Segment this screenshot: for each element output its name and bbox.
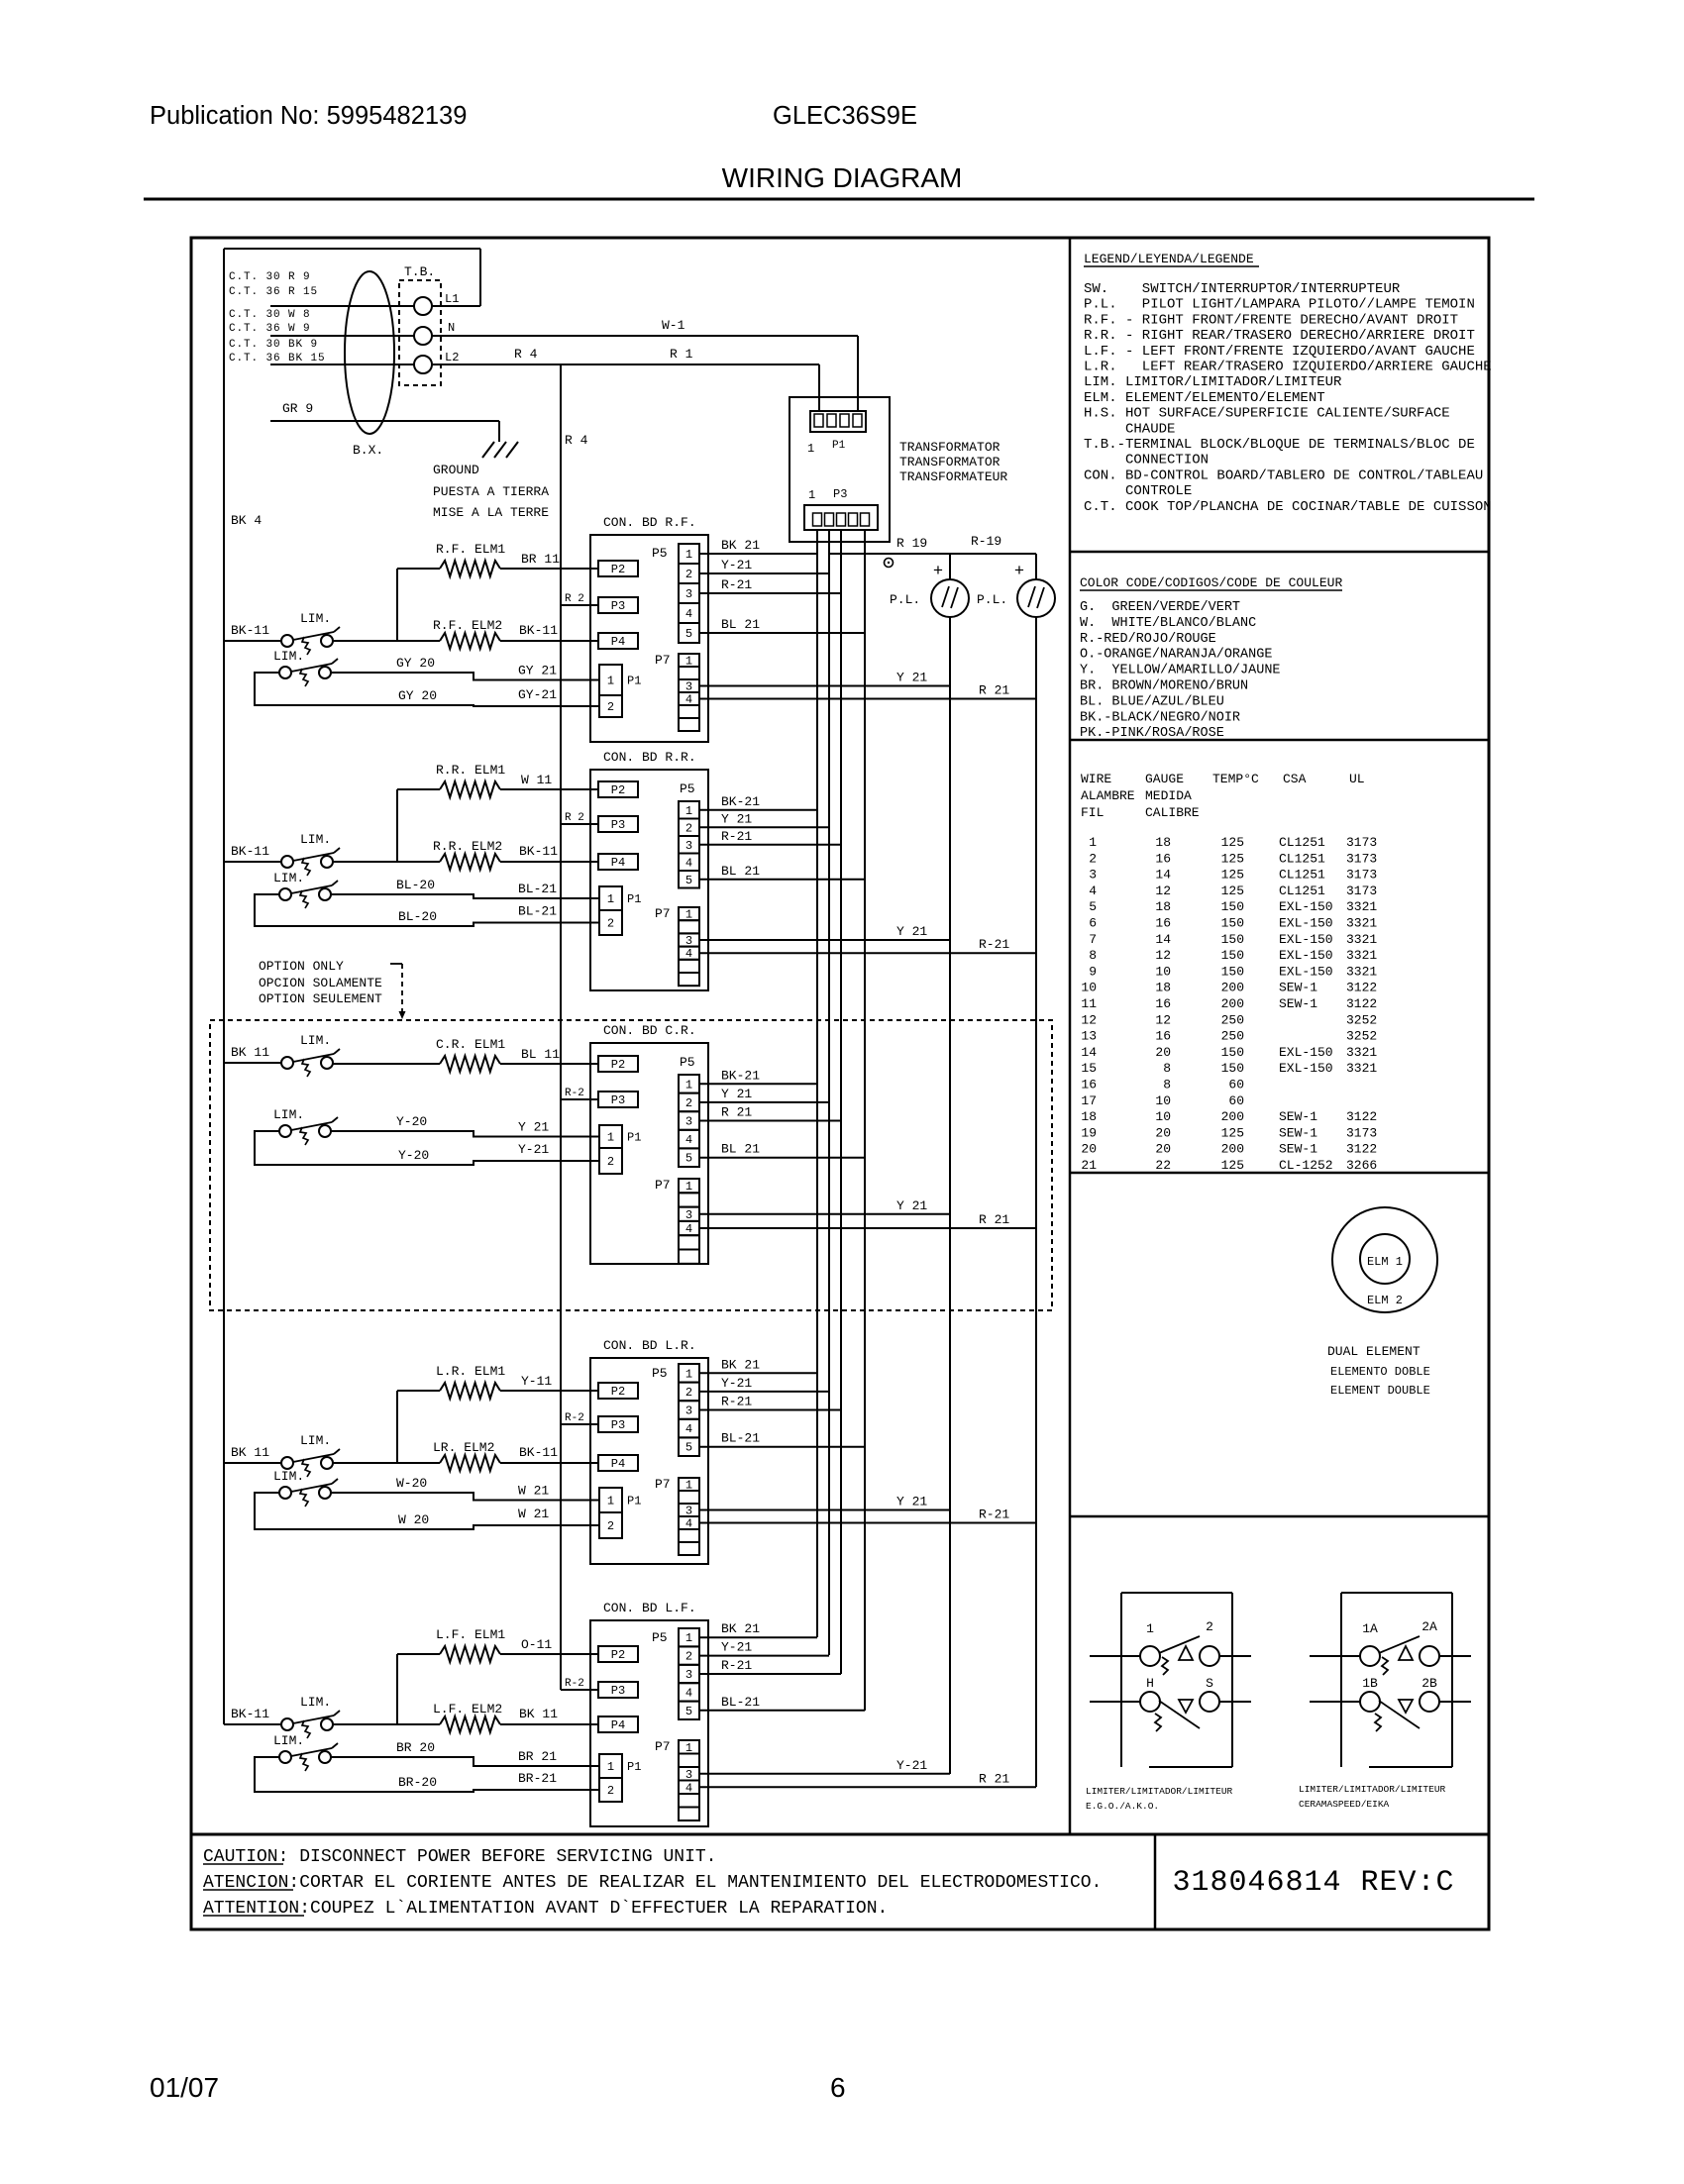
svg-text:Publication No: 5995482139: Publication No: 5995482139 [150,102,467,130]
svg-text:2: 2 [607,1155,614,1169]
svg-text:LIM.: LIM. [273,1107,304,1122]
svg-text:Y-21: Y-21 [721,1376,752,1391]
svg-text:P3: P3 [611,1418,625,1432]
svg-text:BL-21: BL-21 [518,882,557,896]
svg-text:GY-21: GY-21 [518,687,557,702]
svg-text:R-21: R-21 [721,829,752,844]
svg-text:W-1: W-1 [662,318,685,333]
svg-text:CON. BD L.R.: CON. BD L.R. [603,1338,696,1353]
svg-text:C.T. 36 R 15: C.T. 36 R 15 [229,286,318,298]
svg-text:BK-21: BK-21 [721,1068,760,1083]
svg-text:P2: P2 [611,783,625,797]
svg-text:150: 150 [1221,932,1244,947]
svg-text:150: 150 [1221,1045,1244,1060]
svg-text:R-21: R-21 [721,1658,752,1673]
svg-text:EXL-150: EXL-150 [1279,964,1333,979]
svg-text:W 11: W 11 [521,773,552,787]
svg-text:3321: 3321 [1346,948,1377,963]
svg-text:SW. SWITCH/INTERRUPTOR/INTE: SW. SWITCH/INTERRUPTOR/INTERRUPTEUR [1084,281,1401,297]
svg-text:SEW-1: SEW-1 [1279,1125,1317,1140]
svg-text:L.F. ELM1: L.F. ELM1 [436,1627,505,1642]
svg-text:ELEMENT DOUBLE: ELEMENT DOUBLE [1330,1384,1430,1398]
svg-text:2: 2 [607,1784,614,1798]
svg-text:15: 15 [1081,1061,1097,1076]
svg-text:W 21: W 21 [518,1484,549,1499]
svg-text:CL1251: CL1251 [1279,884,1325,898]
svg-text:R 4: R 4 [565,433,588,448]
svg-text:125: 125 [1221,1158,1244,1173]
svg-text:P3: P3 [611,599,625,613]
svg-text:12: 12 [1155,884,1171,898]
svg-text:16: 16 [1155,1029,1171,1044]
svg-text:GLEC36S9E: GLEC36S9E [773,102,917,130]
svg-text:1: 1 [685,1479,692,1493]
svg-text:1: 1 [685,1078,692,1092]
svg-text:O-11: O-11 [521,1637,552,1652]
svg-text:R 2: R 2 [565,812,584,824]
svg-text:R-19: R-19 [971,534,1001,549]
svg-text:1A: 1A [1362,1621,1378,1636]
svg-text:18: 18 [1155,981,1171,995]
svg-text:R-21: R-21 [721,577,752,592]
svg-text:P7: P7 [655,906,671,921]
svg-text:CERAMASPEED/EIKA: CERAMASPEED/EIKA [1299,1799,1390,1810]
svg-text:GY 20: GY 20 [398,688,437,703]
svg-text:ATENCION:CORTAR EL CORIENTE AN: ATENCION:CORTAR EL CORIENTE ANTES DE REA… [203,1873,1102,1893]
svg-text:P3: P3 [611,818,625,832]
svg-text:P1: P1 [832,440,846,452]
svg-text:BK.-BLACK/NEGRO/NOIR: BK.-BLACK/NEGRO/NOIR [1080,710,1240,725]
svg-text:3: 3 [685,1668,692,1682]
svg-text:150: 150 [1221,899,1244,914]
svg-text:W 20: W 20 [398,1512,429,1527]
svg-text:R-2: R-2 [565,1088,584,1099]
svg-text:Y. YELLOW/AMARILLO/JAUNE: Y. YELLOW/AMARILLO/JAUNE [1080,664,1281,678]
svg-text:P2: P2 [611,1058,625,1072]
svg-text:P2: P2 [611,1648,625,1662]
svg-text:R.R. - RIGHT REAR/TRASERO DERE: R.R. - RIGHT REAR/TRASERO DERECHO/ARRIER… [1084,328,1475,344]
svg-text:BK-11: BK-11 [519,1445,558,1460]
svg-text:C.T. 30 R 9: C.T. 30 R 9 [229,271,311,283]
svg-text:2: 2 [607,917,614,931]
svg-text:CON. BD R.R.: CON. BD R.R. [603,750,696,765]
svg-text:1: 1 [685,804,692,818]
svg-text:Y 21: Y 21 [721,811,752,826]
svg-text:3122: 3122 [1346,1109,1377,1124]
svg-text:2: 2 [1089,851,1097,866]
svg-text:WIRING DIAGRAM: WIRING DIAGRAM [722,162,963,193]
svg-text:R 19: R 19 [896,536,927,551]
svg-text:8: 8 [1089,948,1097,963]
svg-text:5: 5 [685,1441,692,1455]
svg-text:Y-21: Y-21 [721,1640,752,1655]
svg-text:BL-21: BL-21 [721,1695,760,1710]
svg-text:LIM. LIMITOR/LIMITADOR/LIMITEU: LIM. LIMITOR/LIMITADOR/LIMITEUR [1084,374,1342,390]
svg-text:BL 21: BL 21 [721,1142,760,1157]
svg-text:4: 4 [685,1422,692,1436]
svg-text:2: 2 [607,700,614,714]
svg-text:CSA: CSA [1283,772,1307,786]
svg-text:BK 21: BK 21 [721,1621,760,1636]
svg-text:LIMITER/LIMITADOR/LIMITEUR: LIMITER/LIMITADOR/LIMITEUR [1299,1784,1446,1795]
svg-text:R 21: R 21 [721,1105,752,1120]
svg-text:CONNECTION: CONNECTION [1084,453,1209,468]
svg-text:GY 21: GY 21 [518,664,557,678]
svg-text:8: 8 [1163,1078,1171,1092]
svg-text:CON. BD L.F.: CON. BD L.F. [603,1601,696,1615]
svg-text:CON. BD R.F.: CON. BD R.F. [603,515,696,530]
svg-text:TRANSFORMATEUR: TRANSFORMATEUR [899,469,1007,484]
svg-text:2: 2 [607,1519,614,1533]
svg-text:3: 3 [685,587,692,601]
svg-text:4: 4 [685,693,692,707]
svg-text:OPCION SOLAMENTE: OPCION SOLAMENTE [259,976,382,990]
svg-text:200: 200 [1221,1142,1244,1157]
svg-text:MISE A LA TERRE: MISE A LA TERRE [433,505,549,520]
svg-text:125: 125 [1221,835,1244,850]
svg-text:6: 6 [1089,916,1097,931]
svg-text:1: 1 [1089,835,1097,850]
svg-text:Y 21: Y 21 [896,1198,927,1213]
svg-text:LIM.: LIM. [300,1695,331,1710]
svg-text:C.T. 36 BK 15: C.T. 36 BK 15 [229,353,326,364]
svg-text:Y-21: Y-21 [721,558,752,572]
svg-text:GR 9: GR 9 [282,401,313,416]
svg-text:C.R. ELM1: C.R. ELM1 [436,1037,505,1052]
svg-text:T.B.-TERMINAL BLOCK/BLOQUE DE: T.B.-TERMINAL BLOCK/BLOQUE DE TERMINALS/… [1084,437,1475,453]
svg-text:P4: P4 [611,1457,625,1471]
svg-text:3173: 3173 [1346,884,1377,898]
svg-text:L.R. ELM1: L.R. ELM1 [436,1364,505,1379]
svg-text:Y 21: Y 21 [896,671,927,685]
svg-text:P3: P3 [833,487,847,501]
svg-text:1: 1 [685,1367,692,1381]
svg-text:R.F. ELM2: R.F. ELM2 [433,618,502,633]
svg-text:N: N [448,321,455,335]
svg-text:17: 17 [1081,1093,1097,1108]
svg-text:3173: 3173 [1346,1125,1377,1140]
svg-text:R 21: R 21 [979,1771,1009,1786]
svg-text:R 2: R 2 [565,593,584,605]
svg-text:1: 1 [1146,1621,1154,1636]
svg-text:20: 20 [1081,1142,1097,1157]
svg-text:ALAMBRE: ALAMBRE [1081,788,1135,803]
svg-text:7: 7 [1089,932,1097,947]
svg-text:125: 125 [1221,851,1244,866]
svg-text:BL-20: BL-20 [396,878,435,892]
svg-text:R.R. ELM1: R.R. ELM1 [436,763,505,778]
svg-text:CON. BD C.R.: CON. BD C.R. [603,1023,696,1038]
svg-text:EXL-150: EXL-150 [1279,1061,1333,1076]
svg-text:3321: 3321 [1346,1061,1377,1076]
svg-text:16: 16 [1155,996,1171,1011]
svg-text:TRANSFORMATOR: TRANSFORMATOR [899,440,1000,455]
svg-text:BR-20: BR-20 [398,1775,437,1790]
svg-text:DUAL ELEMENT: DUAL ELEMENT [1327,1344,1421,1359]
svg-text:TEMP°C: TEMP°C [1212,772,1259,786]
svg-text:2: 2 [685,821,692,835]
svg-text:18: 18 [1155,835,1171,850]
svg-text:BL 21: BL 21 [721,864,760,879]
svg-text:SEW-1: SEW-1 [1279,1109,1317,1124]
svg-text:3321: 3321 [1346,899,1377,914]
svg-text:125: 125 [1221,868,1244,883]
svg-text:PUESTA A TIERRA: PUESTA A TIERRA [433,484,549,499]
svg-text:CL-1252: CL-1252 [1279,1158,1333,1173]
svg-text:L.F. ELM2: L.F. ELM2 [433,1702,502,1716]
svg-text:ATTENTION:COUPEZ L`ALIMENTATIO: ATTENTION:COUPEZ L`ALIMENTATION AVANT D`… [203,1899,888,1919]
svg-text:1: 1 [607,1495,614,1508]
svg-text:1: 1 [607,892,614,906]
svg-text:P1: P1 [627,892,641,906]
svg-text:21: 21 [1081,1158,1097,1173]
svg-text:R-2: R-2 [565,1412,584,1424]
svg-text:P5: P5 [652,1630,668,1645]
svg-text:SEW-1: SEW-1 [1279,1142,1317,1157]
svg-text:P5: P5 [652,546,668,561]
svg-text:14: 14 [1155,868,1171,883]
svg-text:BK 21: BK 21 [721,1357,760,1372]
svg-text:GROUND: GROUND [433,463,479,477]
svg-text:10: 10 [1155,1093,1171,1108]
svg-text:1: 1 [607,1131,614,1145]
svg-text:3: 3 [685,680,692,694]
svg-text:L.R. LEFT REAR/TRASERO IZQUI: L.R. LEFT REAR/TRASERO IZQUIERDO/ARRIERE… [1084,360,1492,375]
svg-text:1: 1 [685,1741,692,1755]
svg-text:P2: P2 [611,1385,625,1399]
svg-text:BL-21: BL-21 [518,904,557,919]
svg-text:5: 5 [685,874,692,887]
svg-text:P5: P5 [652,1366,668,1381]
svg-text:12: 12 [1155,1012,1171,1027]
svg-text:E.G.O./A.K.O.: E.G.O./A.K.O. [1086,1801,1159,1812]
svg-text:Y 21: Y 21 [518,1120,549,1135]
svg-text:3: 3 [685,1404,692,1418]
svg-text:CL1251: CL1251 [1279,868,1325,883]
svg-text:Y-21: Y-21 [518,1142,549,1157]
svg-text:12: 12 [1081,1012,1097,1027]
svg-text:S: S [1206,1676,1213,1691]
svg-text:16: 16 [1155,916,1171,931]
svg-text:BK-11: BK-11 [519,844,558,859]
svg-text:4: 4 [685,1222,692,1236]
svg-text:3122: 3122 [1346,1142,1377,1157]
svg-text:SEW-1: SEW-1 [1279,981,1317,995]
svg-text:ELM. ELEMENT/ELEMENTO/ELEMENT: ELM. ELEMENT/ELEMENTO/ELEMENT [1084,390,1325,406]
svg-text:LIMITER/LIMITADOR/LIMITEUR: LIMITER/LIMITADOR/LIMITEUR [1086,1786,1233,1797]
svg-text:13: 13 [1081,1029,1097,1044]
svg-text:2: 2 [685,1096,692,1110]
svg-text:CL1251: CL1251 [1279,851,1325,866]
svg-text:UL: UL [1349,772,1365,786]
svg-text:P.L.: P.L. [890,592,920,607]
svg-text:11: 11 [1081,996,1097,1011]
svg-text:R 21: R 21 [979,1212,1009,1227]
svg-text:BR 11: BR 11 [521,552,560,567]
svg-text:L2: L2 [445,351,459,364]
svg-text:OPTION SEULEMENT: OPTION SEULEMENT [259,991,382,1006]
svg-text:1: 1 [607,1760,614,1774]
svg-text:2B: 2B [1421,1676,1437,1691]
svg-text:EXL-150: EXL-150 [1279,899,1333,914]
svg-text:P3: P3 [611,1684,625,1698]
svg-text:R-21: R-21 [979,1508,1009,1522]
svg-text:Y-11: Y-11 [521,1374,552,1389]
svg-text:4: 4 [685,1686,692,1700]
svg-text:1: 1 [685,655,692,669]
svg-text:P1: P1 [627,675,641,688]
svg-text:P1: P1 [627,1760,641,1774]
svg-text:4: 4 [685,1517,692,1531]
svg-text:16: 16 [1081,1078,1097,1092]
svg-text:BL-20: BL-20 [398,909,437,924]
svg-text:PK.-PINK/ROSA/ROSE: PK.-PINK/ROSA/ROSE [1080,726,1224,741]
svg-text:R 4: R 4 [514,347,538,362]
svg-text:ELEMENTO DOBLE: ELEMENTO DOBLE [1330,1365,1430,1379]
svg-text:P5: P5 [680,781,695,796]
svg-text:GY 20: GY 20 [396,656,435,671]
svg-text:20: 20 [1155,1125,1171,1140]
svg-text:3: 3 [685,1768,692,1782]
svg-text:60: 60 [1228,1093,1244,1108]
svg-text:3252: 3252 [1346,1012,1377,1027]
svg-text:R.F. - RIGHT FRONT/FRENTE DERE: R.F. - RIGHT FRONT/FRENTE DERECHO/AVANT … [1084,312,1458,328]
svg-text:1: 1 [808,488,815,502]
svg-text:16: 16 [1155,851,1171,866]
svg-text:10: 10 [1155,1109,1171,1124]
svg-text:10: 10 [1081,981,1097,995]
svg-text:5: 5 [685,1152,692,1166]
svg-text:+: + [1014,563,1024,581]
svg-text:BK 21: BK 21 [721,538,760,553]
svg-text:1: 1 [685,548,692,562]
svg-text:5: 5 [685,1705,692,1718]
svg-text:3: 3 [685,1115,692,1129]
svg-text:OPTION ONLY: OPTION ONLY [259,959,344,974]
svg-text:BR 21: BR 21 [518,1749,557,1764]
svg-text:4: 4 [685,856,692,870]
svg-text:BL 21: BL 21 [721,617,760,632]
svg-text:18: 18 [1081,1109,1097,1124]
svg-text:150: 150 [1221,948,1244,963]
svg-text:1: 1 [685,1180,692,1194]
svg-text:9: 9 [1089,964,1097,979]
svg-text:C.T. 30 W 8: C.T. 30 W 8 [229,309,311,321]
svg-text:3321: 3321 [1346,916,1377,931]
svg-text:1: 1 [607,675,614,688]
svg-text:R.-RED/ROJO/ROUGE: R.-RED/ROJO/ROUGE [1080,632,1216,647]
svg-text:R-21: R-21 [721,1395,752,1409]
svg-text:1: 1 [685,1631,692,1645]
svg-text:LIM.: LIM. [300,832,331,847]
svg-text:LIM.: LIM. [273,1733,304,1748]
svg-text:250: 250 [1221,1029,1244,1044]
svg-text:6: 6 [830,2072,846,2103]
svg-text:P1: P1 [627,1131,641,1145]
svg-text:CALIBRE: CALIBRE [1145,805,1200,820]
svg-text:P4: P4 [611,635,625,649]
svg-text:4: 4 [685,947,692,961]
svg-text:3173: 3173 [1346,851,1377,866]
svg-text:P7: P7 [655,653,671,668]
svg-text:14: 14 [1081,1045,1097,1060]
svg-text:BR-21: BR-21 [518,1771,557,1786]
svg-text:4: 4 [685,1781,692,1795]
svg-text:BK 11: BK 11 [231,1445,269,1460]
svg-text:BL. BLUE/AZUL/BLEU: BL. BLUE/AZUL/BLEU [1080,694,1224,709]
svg-text:3266: 3266 [1346,1158,1377,1173]
svg-text:LIM.: LIM. [273,871,304,885]
svg-text:R-21: R-21 [979,937,1009,952]
svg-text:200: 200 [1221,1109,1244,1124]
svg-text:BL-21: BL-21 [721,1431,760,1446]
svg-text:3: 3 [685,1505,692,1518]
svg-text:2: 2 [685,568,692,581]
svg-text:19: 19 [1081,1125,1097,1140]
svg-text:BK 11: BK 11 [519,1707,558,1721]
svg-text:GAUGE: GAUGE [1145,772,1184,786]
svg-text:BK-11: BK-11 [231,1707,269,1721]
svg-text:W 21: W 21 [518,1507,549,1521]
svg-text:C.T. 30 BK 9: C.T. 30 BK 9 [229,339,318,351]
svg-text:H: H [1146,1676,1154,1691]
svg-text:R-2: R-2 [565,1678,584,1690]
svg-text:14: 14 [1155,932,1171,947]
svg-text:Y 21: Y 21 [896,924,927,939]
svg-text:LEGEND/LEYENDA/LEGENDE: LEGEND/LEYENDA/LEGENDE [1084,252,1254,266]
svg-text:B.X.: B.X. [353,443,383,458]
svg-text:LIM.: LIM. [273,649,304,664]
svg-text:150: 150 [1221,964,1244,979]
svg-text:EXL-150: EXL-150 [1279,1045,1333,1060]
svg-text:2A: 2A [1421,1619,1437,1634]
svg-text:60: 60 [1228,1078,1244,1092]
svg-text:L.F. - LEFT FRONT/FRENTE IZQUI: L.F. - LEFT FRONT/FRENTE IZQUIERDO/AVANT… [1084,344,1475,360]
svg-text:5: 5 [1089,899,1097,914]
svg-text:LIM.: LIM. [300,1033,331,1048]
svg-text:BK 4: BK 4 [231,513,262,528]
svg-text:EXL-150: EXL-150 [1279,932,1333,947]
svg-text:20: 20 [1155,1142,1171,1157]
svg-text:3321: 3321 [1346,964,1377,979]
svg-text:LIM.: LIM. [300,1433,331,1448]
svg-text:8: 8 [1163,1061,1171,1076]
svg-text:125: 125 [1221,1125,1244,1140]
svg-text:3122: 3122 [1346,996,1377,1011]
svg-text:3321: 3321 [1346,932,1377,947]
svg-text:P.L. PILOT LIGHT/LAMPARA PIL: P.L. PILOT LIGHT/LAMPARA PILOTO//LAMPE T… [1084,297,1475,313]
svg-text:P2: P2 [611,563,625,576]
svg-text:P7: P7 [655,1178,671,1193]
svg-text:3: 3 [685,1208,692,1222]
svg-text:2: 2 [685,1650,692,1664]
svg-text:T.B.: T.B. [404,264,435,279]
svg-text:22: 22 [1155,1158,1171,1173]
svg-text:P4: P4 [611,856,625,870]
svg-text:200: 200 [1221,981,1244,995]
svg-text:250: 250 [1221,1012,1244,1027]
svg-text:P.L.: P.L. [977,592,1007,607]
svg-text:18: 18 [1155,899,1171,914]
svg-text:BK-11: BK-11 [231,844,269,859]
svg-text:2: 2 [685,1386,692,1400]
svg-text:W. WHITE/BLANCO/BLANC: W. WHITE/BLANCO/BLANC [1080,616,1256,631]
svg-text:1B: 1B [1362,1676,1378,1691]
svg-text:3122: 3122 [1346,981,1377,995]
svg-text:EXL-150: EXL-150 [1279,948,1333,963]
svg-text:5: 5 [685,627,692,641]
svg-text:TRANSFORMATOR: TRANSFORMATOR [899,455,1000,469]
